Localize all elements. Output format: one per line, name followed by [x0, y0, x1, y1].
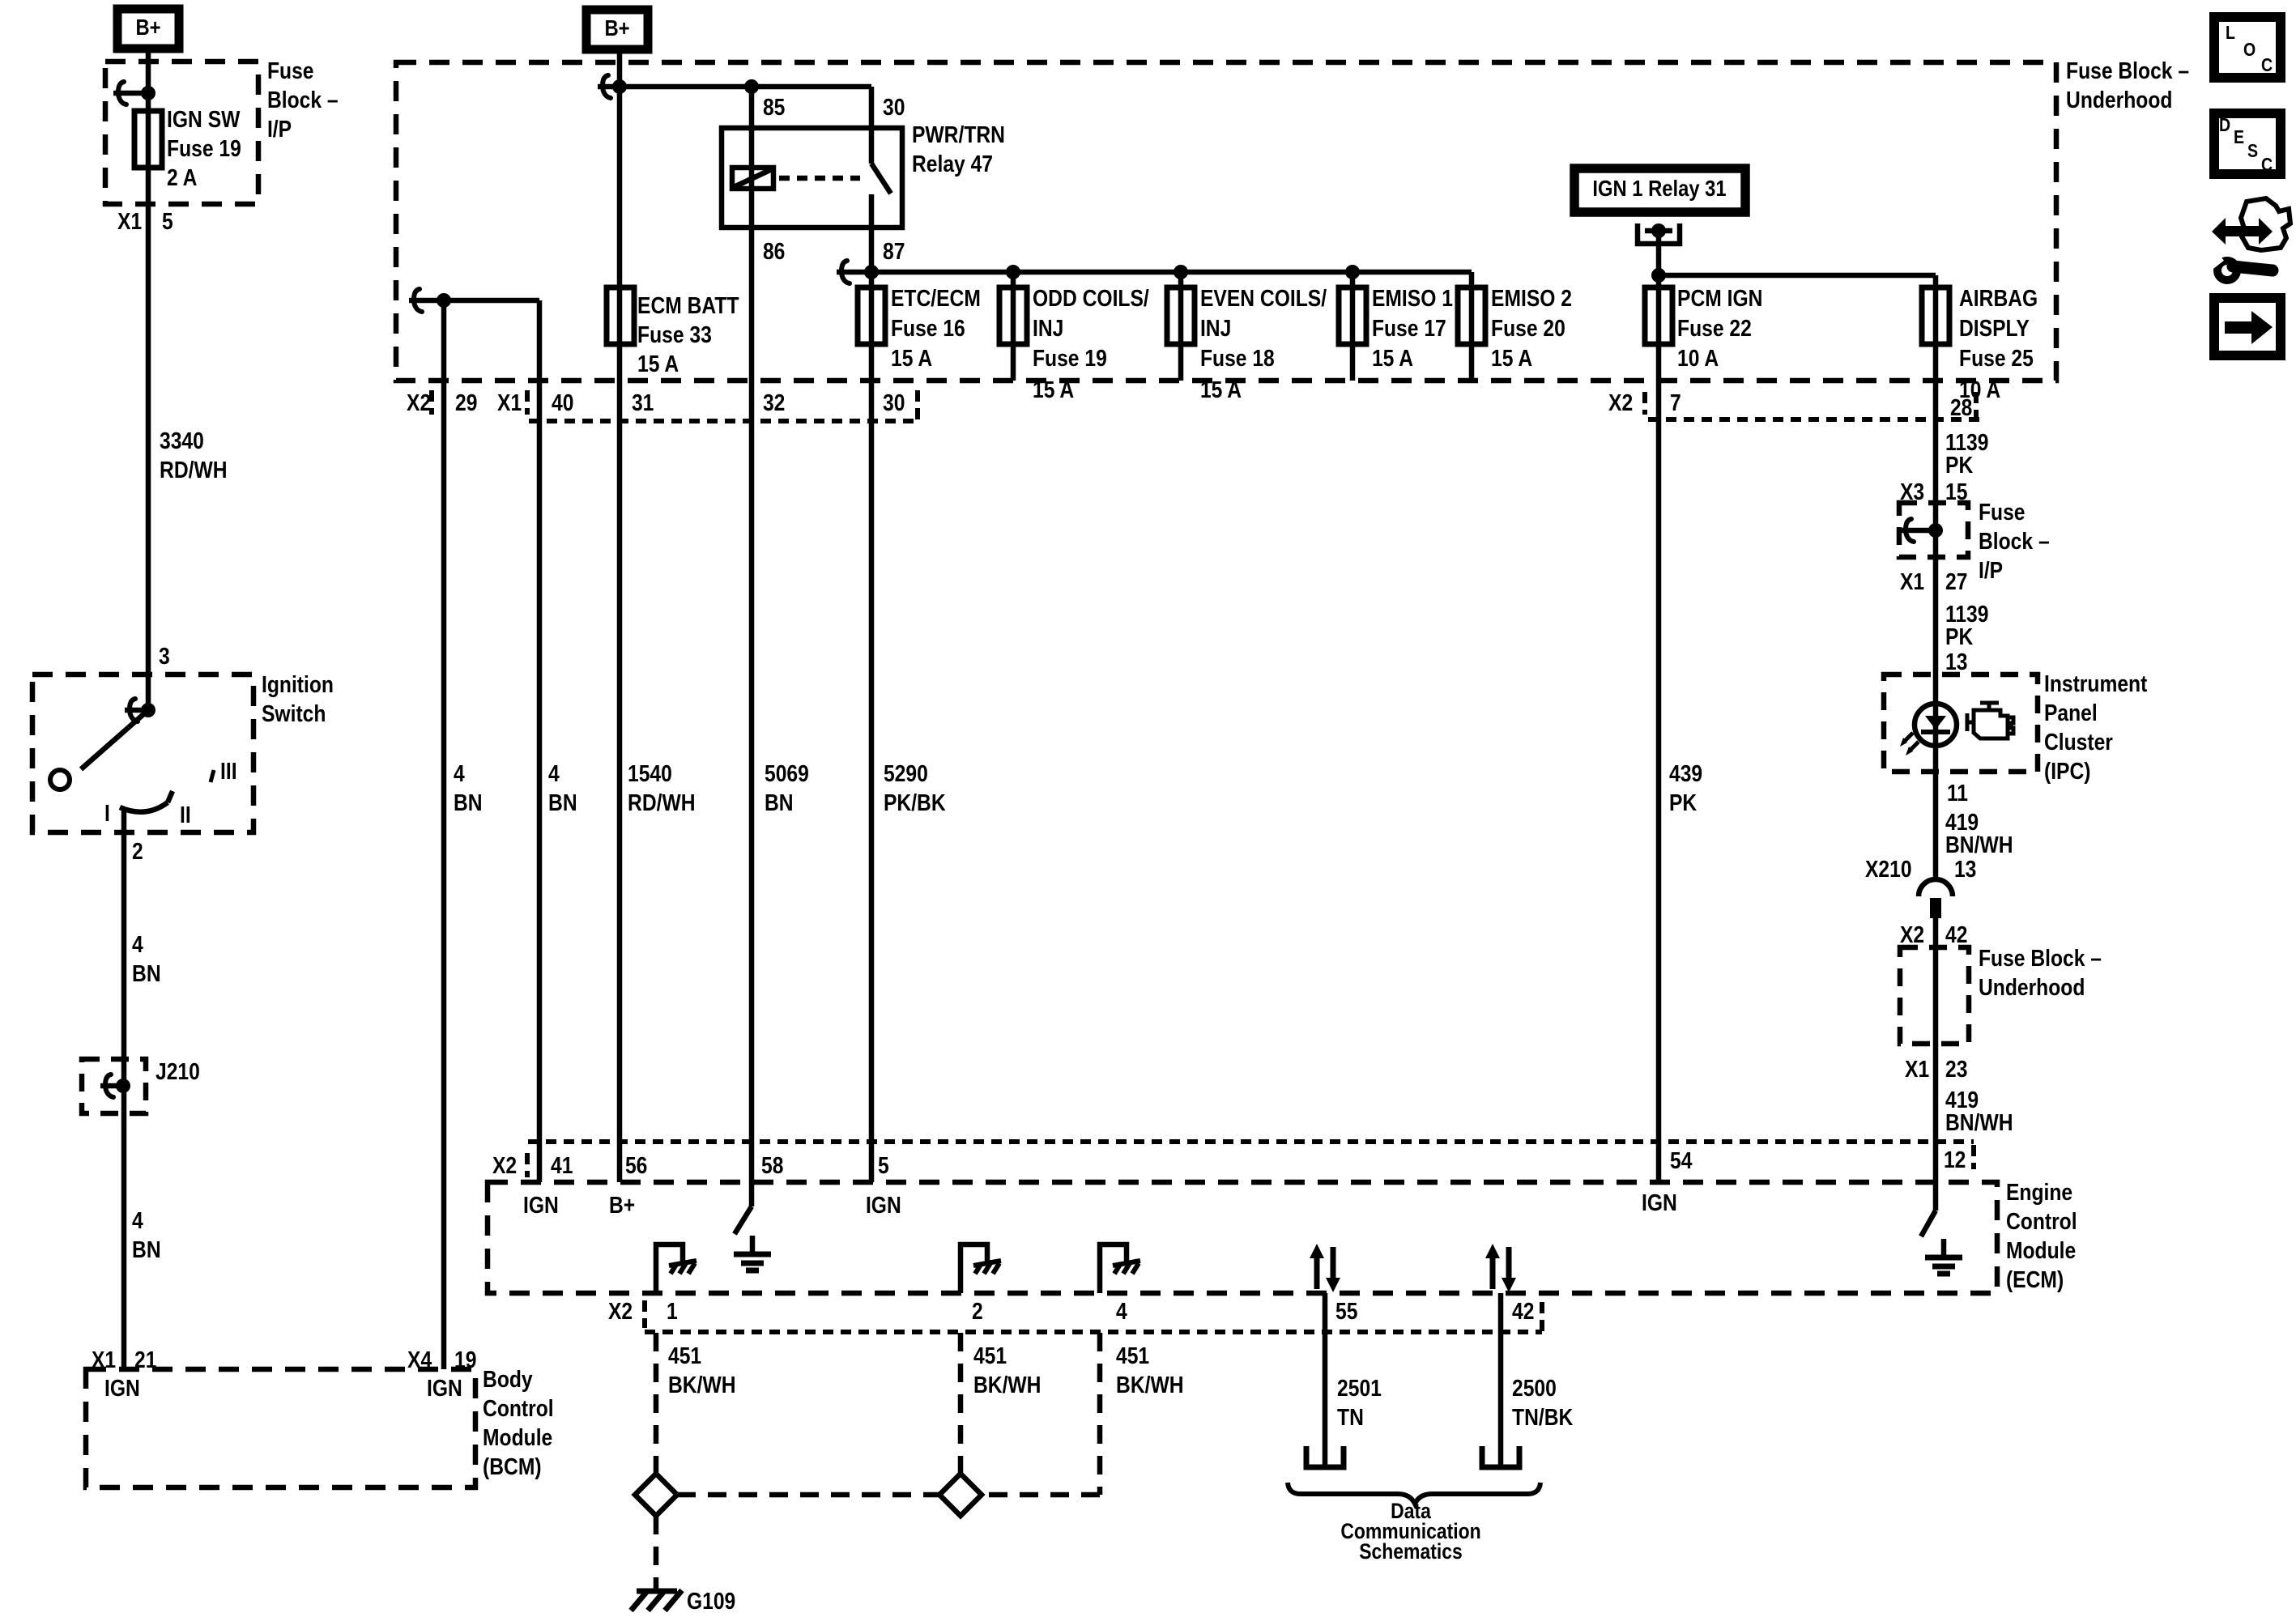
- svg-text:PK: PK: [1945, 452, 1974, 478]
- svg-text:X2: X2: [1608, 389, 1633, 415]
- svg-text:Control: Control: [2006, 1208, 2077, 1234]
- svg-text:BN: BN: [454, 789, 483, 815]
- svg-text:BN: BN: [132, 960, 161, 986]
- svg-text:Module: Module: [483, 1424, 552, 1450]
- svg-text:58: 58: [761, 1152, 783, 1178]
- svg-text:B+: B+: [604, 15, 629, 40]
- svg-text:13: 13: [1945, 649, 1967, 674]
- svg-text:Relay 47: Relay 47: [912, 151, 993, 177]
- svg-text:56: 56: [625, 1152, 647, 1178]
- svg-text:C: C: [2261, 55, 2273, 76]
- svg-text:C: C: [2261, 155, 2273, 176]
- svg-text:Fuse 25: Fuse 25: [1959, 345, 2034, 371]
- svg-text:BN/WH: BN/WH: [1945, 832, 2013, 857]
- svg-text:S: S: [2247, 141, 2258, 162]
- svg-text:5: 5: [878, 1152, 889, 1178]
- svg-text:451: 451: [668, 1343, 701, 1368]
- svg-text:4: 4: [548, 760, 560, 786]
- svg-text:X1: X1: [1905, 1056, 1929, 1082]
- svg-text:PK/BK: PK/BK: [884, 789, 946, 815]
- svg-text:PCM IGN: PCM IGN: [1677, 285, 1762, 311]
- svg-text:X2: X2: [1900, 921, 1924, 947]
- svg-text:15 A: 15 A: [1200, 377, 1242, 402]
- svg-text:54: 54: [1670, 1147, 1692, 1173]
- svg-text:4: 4: [1116, 1298, 1127, 1324]
- svg-text:X2: X2: [608, 1298, 633, 1324]
- svg-text:Module: Module: [2006, 1237, 2076, 1263]
- svg-text:21: 21: [134, 1347, 156, 1372]
- svg-text:15 A: 15 A: [1491, 345, 1532, 371]
- svg-text:RD/WH: RD/WH: [160, 457, 228, 483]
- svg-text:15: 15: [1945, 479, 1967, 504]
- svg-text:IGN: IGN: [866, 1192, 901, 1218]
- svg-text:PWR/TRN: PWR/TRN: [912, 121, 1005, 147]
- svg-text:Fuse 17: Fuse 17: [1372, 315, 1446, 341]
- svg-text:BN: BN: [132, 1236, 161, 1262]
- svg-text:29: 29: [455, 389, 477, 415]
- svg-text:X2: X2: [492, 1152, 517, 1178]
- svg-text:Engine: Engine: [2006, 1179, 2072, 1205]
- svg-text:EVEN COILS/: EVEN COILS/: [1200, 285, 1327, 311]
- svg-text:RD/WH: RD/WH: [628, 789, 696, 815]
- svg-text:B+: B+: [135, 14, 160, 40]
- svg-text:IGN: IGN: [1642, 1189, 1677, 1215]
- svg-text:2 A: 2 A: [167, 164, 197, 190]
- svg-text:IGN: IGN: [427, 1375, 462, 1401]
- svg-text:E: E: [2234, 127, 2244, 148]
- svg-text:(IPC): (IPC): [2044, 758, 2091, 784]
- svg-text:85: 85: [763, 94, 785, 120]
- svg-text:Fuse Block –: Fuse Block –: [1979, 945, 2102, 971]
- svg-text:15 A: 15 A: [1372, 345, 1413, 371]
- svg-text:1540: 1540: [628, 760, 672, 786]
- svg-text:40: 40: [552, 389, 573, 415]
- svg-text:ECM BATT: ECM BATT: [637, 292, 739, 318]
- svg-text:31: 31: [632, 389, 654, 415]
- svg-text:42: 42: [1945, 921, 1967, 947]
- svg-text:Panel: Panel: [2044, 700, 2098, 726]
- svg-text:Fuse 19: Fuse 19: [1033, 345, 1107, 371]
- svg-text:(BCM): (BCM): [483, 1453, 542, 1479]
- svg-text:BK/WH: BK/WH: [1116, 1372, 1184, 1398]
- svg-text:TN: TN: [1337, 1404, 1364, 1430]
- svg-text:5069: 5069: [765, 760, 809, 786]
- svg-text:23: 23: [1945, 1056, 1967, 1082]
- svg-text:X3: X3: [1900, 479, 1924, 504]
- svg-text:X2: X2: [407, 389, 431, 415]
- svg-text:32: 32: [763, 389, 785, 415]
- svg-text:J210: J210: [155, 1058, 200, 1084]
- svg-text:30: 30: [883, 94, 905, 120]
- svg-text:11: 11: [1947, 780, 1968, 806]
- svg-text:PK: PK: [1945, 623, 1974, 649]
- svg-text:IGN: IGN: [104, 1375, 140, 1401]
- svg-text:30: 30: [883, 389, 905, 415]
- svg-text:439: 439: [1669, 760, 1702, 786]
- svg-text:Switch: Switch: [262, 700, 326, 726]
- svg-text:G109: G109: [687, 1588, 735, 1614]
- svg-text:Instrument: Instrument: [2044, 670, 2147, 696]
- svg-text:5: 5: [162, 208, 173, 234]
- svg-text:Fuse 19: Fuse 19: [167, 135, 241, 161]
- svg-text:15 A: 15 A: [891, 345, 932, 371]
- svg-text:II: II: [180, 802, 191, 828]
- svg-text:Ignition: Ignition: [262, 671, 334, 697]
- svg-text:41: 41: [551, 1152, 573, 1178]
- svg-text:Fuse: Fuse: [1979, 499, 2026, 525]
- svg-text:D: D: [2219, 115, 2230, 136]
- svg-text:X210: X210: [1865, 856, 1912, 882]
- svg-text:EMISO 1: EMISO 1: [1372, 285, 1453, 311]
- svg-text:12: 12: [1944, 1147, 1966, 1172]
- svg-text:X4: X4: [407, 1347, 432, 1372]
- svg-text:IGN: IGN: [523, 1192, 559, 1218]
- svg-text:X1: X1: [1900, 568, 1924, 594]
- svg-text:EMISO 2: EMISO 2: [1491, 285, 1572, 311]
- svg-text:42: 42: [1512, 1298, 1534, 1324]
- svg-text:Block –: Block –: [267, 87, 339, 113]
- svg-text:O: O: [2243, 40, 2256, 61]
- svg-text:87: 87: [883, 238, 905, 264]
- svg-text:L: L: [2226, 23, 2235, 44]
- svg-text:BN: BN: [765, 789, 794, 815]
- svg-text:19: 19: [454, 1347, 476, 1372]
- svg-text:15 A: 15 A: [1033, 377, 1074, 402]
- svg-text:I/P: I/P: [267, 116, 292, 142]
- svg-text:1: 1: [667, 1298, 678, 1324]
- svg-text:Fuse: Fuse: [267, 57, 314, 83]
- svg-text:BN: BN: [548, 789, 577, 815]
- svg-text:86: 86: [763, 238, 785, 264]
- svg-text:IGN 1 Relay 31: IGN 1 Relay 31: [1592, 175, 1726, 201]
- svg-text:(ECM): (ECM): [2006, 1266, 2064, 1292]
- svg-text:X1: X1: [92, 1347, 116, 1372]
- svg-text:INJ: INJ: [1200, 315, 1231, 341]
- svg-text:13: 13: [1954, 856, 1976, 882]
- svg-text:Underhood: Underhood: [1979, 974, 2085, 1000]
- svg-text:55: 55: [1335, 1298, 1357, 1324]
- svg-text:AIRBAG: AIRBAG: [1959, 285, 2038, 311]
- svg-text:451: 451: [973, 1343, 1007, 1368]
- svg-text:X1: X1: [497, 389, 522, 415]
- svg-text:ODD COILS/: ODD COILS/: [1033, 285, 1149, 311]
- svg-text:Fuse 33: Fuse 33: [637, 321, 712, 347]
- svg-text:B+: B+: [609, 1192, 635, 1218]
- svg-text:X1: X1: [117, 208, 142, 234]
- svg-text:I: I: [104, 800, 110, 826]
- svg-text:2: 2: [132, 838, 143, 864]
- svg-text:Block –: Block –: [1979, 528, 2050, 554]
- svg-text:Control: Control: [483, 1395, 554, 1421]
- svg-text:3340: 3340: [160, 428, 204, 453]
- svg-text:451: 451: [1116, 1343, 1149, 1368]
- svg-text:27: 27: [1945, 568, 1967, 594]
- svg-text:PK: PK: [1669, 789, 1698, 815]
- svg-text:Fuse 16: Fuse 16: [891, 315, 965, 341]
- svg-text:ETC/ECM: ETC/ECM: [891, 285, 981, 311]
- svg-text:Fuse 20: Fuse 20: [1491, 315, 1565, 341]
- svg-text:10 A: 10 A: [1677, 345, 1719, 371]
- svg-text:Fuse 22: Fuse 22: [1677, 315, 1752, 341]
- svg-text:INJ: INJ: [1033, 315, 1063, 341]
- svg-text:BN/WH: BN/WH: [1945, 1109, 2013, 1135]
- svg-text:BK/WH: BK/WH: [973, 1372, 1042, 1398]
- svg-text:TN/BK: TN/BK: [1512, 1404, 1574, 1430]
- svg-text:2501: 2501: [1337, 1375, 1382, 1401]
- svg-text:7: 7: [1670, 389, 1681, 415]
- svg-text:4: 4: [132, 1207, 143, 1233]
- svg-text:BK/WH: BK/WH: [668, 1372, 736, 1398]
- svg-text:4: 4: [132, 931, 143, 957]
- svg-text:III: III: [220, 758, 237, 784]
- svg-text:2500: 2500: [1512, 1375, 1557, 1401]
- svg-text:28: 28: [1950, 394, 1972, 420]
- svg-text:I/P: I/P: [1979, 557, 2003, 583]
- svg-text:Fuse Block –: Fuse Block –: [2066, 57, 2189, 83]
- svg-text:5290: 5290: [884, 760, 928, 786]
- svg-text:15 A: 15 A: [637, 351, 679, 377]
- svg-text:3: 3: [159, 643, 170, 669]
- svg-text:Fuse 18: Fuse 18: [1200, 345, 1275, 371]
- svg-text:2: 2: [972, 1298, 983, 1324]
- svg-text:Underhood: Underhood: [2066, 87, 2172, 113]
- svg-text:4: 4: [454, 760, 465, 786]
- svg-text:IGN SW: IGN SW: [167, 106, 241, 132]
- svg-text:DISPLY: DISPLY: [1959, 315, 2030, 341]
- svg-text:Cluster: Cluster: [2044, 729, 2113, 755]
- svg-text:Body: Body: [483, 1366, 533, 1392]
- svg-text:Schematics: Schematics: [1359, 1539, 1463, 1564]
